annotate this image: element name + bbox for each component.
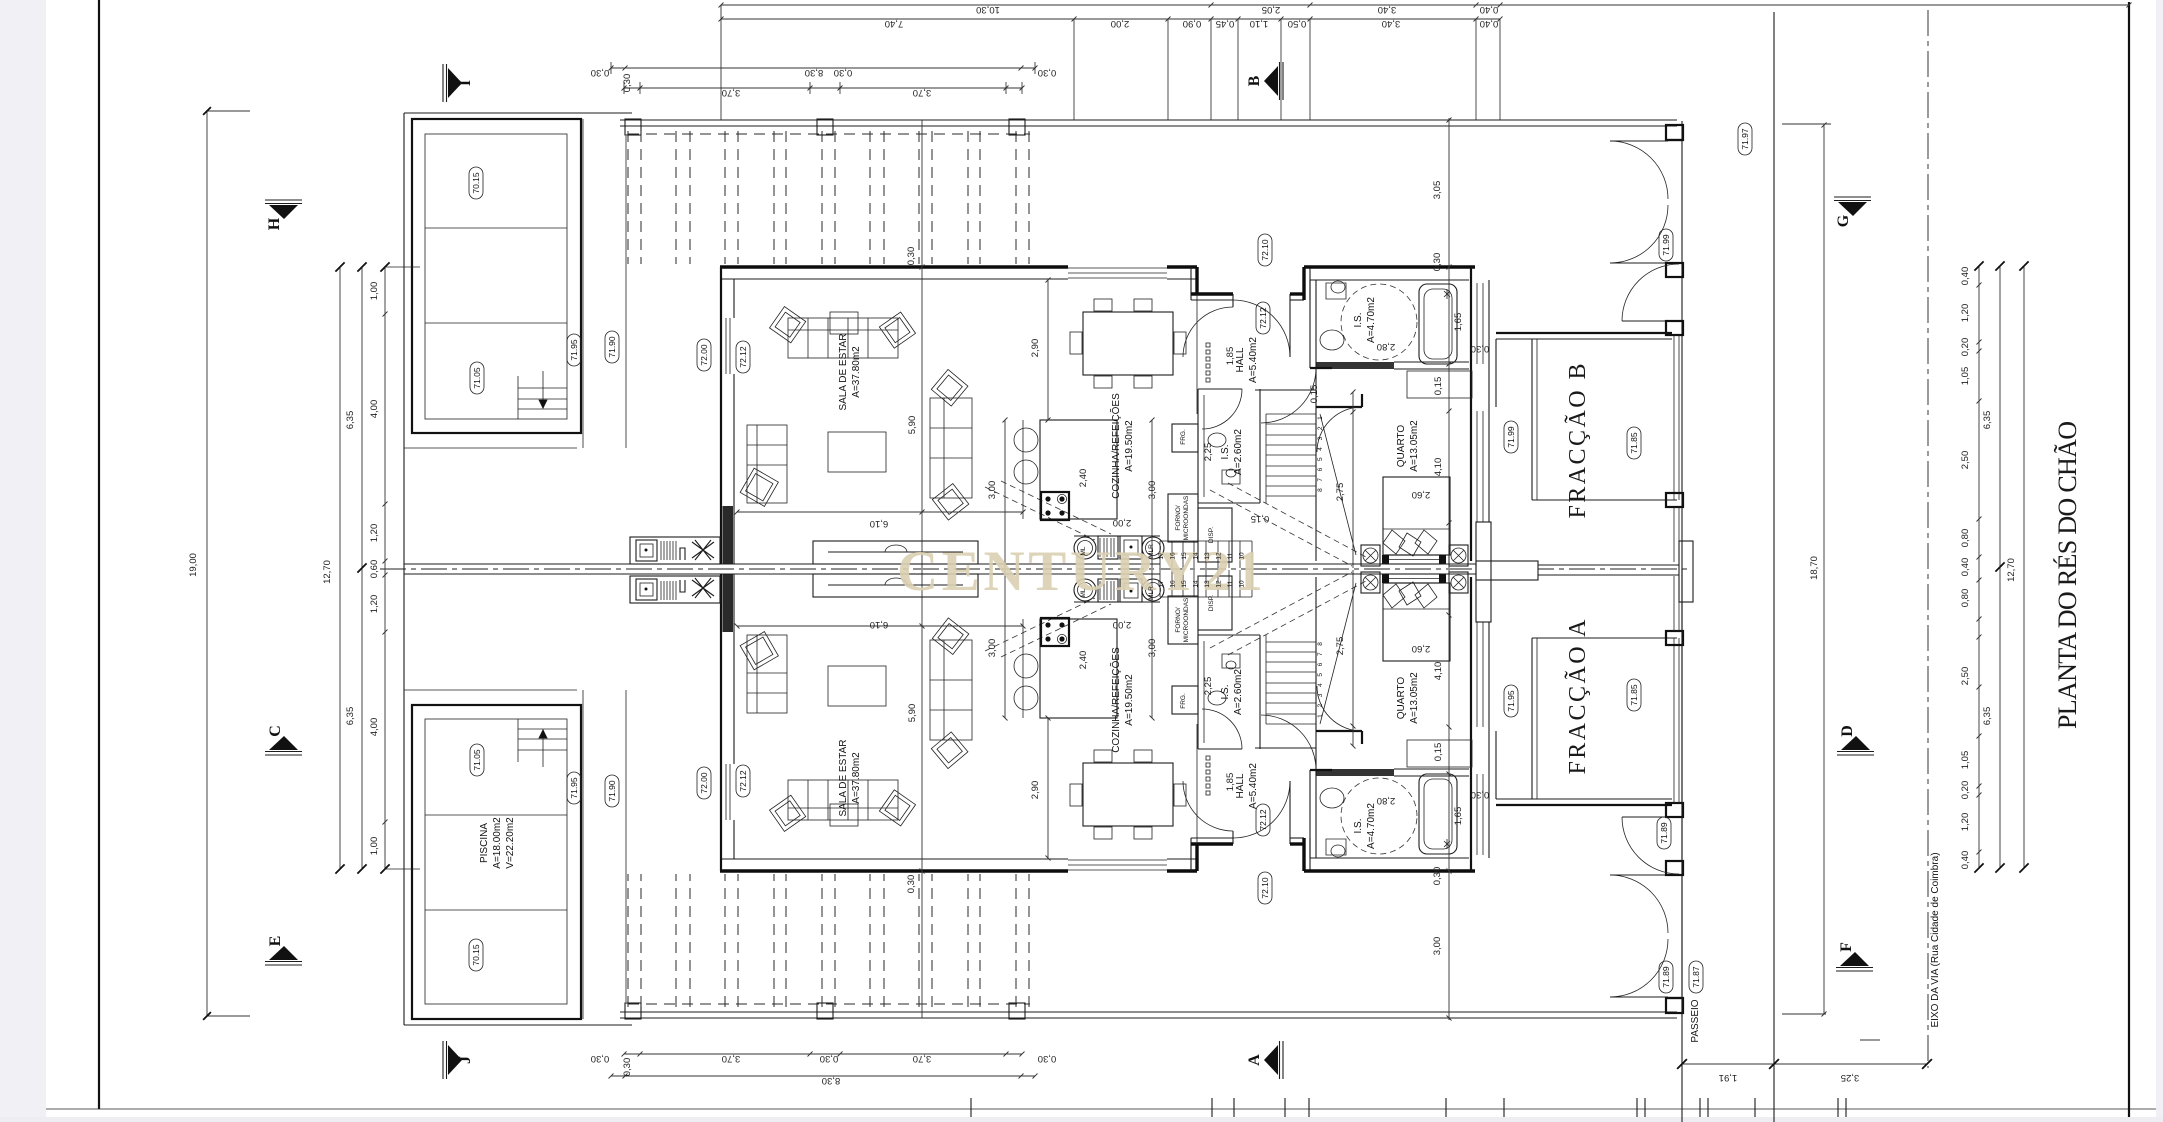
svg-text:0,20: 0,20 [1960, 338, 1971, 357]
dim fine chain left [384, 267, 386, 869]
svg-text:7: 7 [1317, 652, 1324, 656]
svg-text:0,80: 0,80 [1960, 589, 1971, 608]
court slab bottom [1532, 499, 1677, 501]
chair bottom [1134, 376, 1152, 388]
svg-text:3,40: 3,40 [1378, 4, 1397, 15]
gate leaf 3 [1622, 320, 1679, 322]
svg-text:COZINHA/REFEIÇÕES: COZINHA/REFEIÇÕES [1109, 393, 1122, 499]
tick [970, 1098, 972, 1117]
cabinet FRG [1172, 424, 1198, 452]
svg-text:2: 2 [1317, 426, 1324, 430]
svg-text:1,20: 1,20 [1960, 813, 1971, 832]
svg-text:2,00: 2,00 [1113, 619, 1132, 630]
svg-text:71.99: 71.99 [1661, 234, 1671, 256]
svg-text:0,40: 0,40 [1960, 558, 1971, 577]
wall IS2 top [1198, 388, 1242, 390]
svg-text:0,60: 0,60 [369, 560, 380, 579]
wall bath bottom b [1394, 368, 1469, 370]
svg-text:3: 3 [1317, 693, 1324, 697]
wall bath top inner [1310, 279, 1469, 281]
svg-text:0,30: 0,30 [591, 67, 610, 78]
svg-text:6,35: 6,35 [1982, 707, 1993, 726]
svg-text:QUARTO: QUARTO [1396, 425, 1407, 468]
door jamb porch [1232, 294, 1234, 307]
spot elevation 71.89 [1659, 961, 1673, 993]
svg-text:FRG.: FRG. [1180, 693, 1187, 709]
svg-text:3,40: 3,40 [1382, 18, 1401, 29]
dining table [1083, 312, 1173, 375]
tick [1837, 1098, 1839, 1117]
svg-text:FRACÇÃO B: FRACÇÃO B [1565, 364, 1591, 519]
svg-text:12: 12 [1216, 580, 1223, 588]
stair break dash b [1228, 483, 1366, 557]
ext line [1167, 19, 1169, 120]
spot elevation 72.12 [736, 765, 750, 797]
dim line 0,30/5,90 [921, 120, 923, 568]
svg-text:2,50: 2,50 [1960, 451, 1971, 470]
svg-text:3,70: 3,70 [913, 1053, 932, 1064]
wall living left inner a [733, 279, 735, 318]
dim line 2,90 [1047, 280, 1049, 420]
tick [1699, 1098, 1701, 1117]
section marker A [1282, 1041, 1284, 1079]
svg-text:2,80: 2,80 [1377, 341, 1396, 352]
ext line [1309, 19, 1311, 120]
svg-text:72.00: 72.00 [699, 344, 709, 366]
spot elevation 71.90 [605, 775, 619, 807]
svg-text:ML: ML [1080, 546, 1087, 555]
wire property line top [404, 112, 632, 114]
nightstand L [1361, 545, 1380, 566]
svg-text:12,70: 12,70 [322, 560, 333, 584]
svg-text:71.05: 71.05 [472, 749, 482, 771]
niche shelf [1407, 371, 1472, 398]
ext line [1475, 19, 1477, 120]
svg-text:1,65: 1,65 [1453, 313, 1464, 332]
svg-text:J: J [457, 1056, 474, 1064]
court wall top [1496, 332, 1672, 334]
svg-text:2,25: 2,25 [1203, 443, 1214, 462]
spot elevation 71.90 [605, 331, 619, 363]
svg-text:8,30: 8,30 [822, 1075, 841, 1086]
stairs treads [1266, 413, 1316, 415]
tick [1503, 1098, 1505, 1117]
svg-text:A=18.00m2: A=18.00m2 [492, 817, 503, 869]
party fence right b [1538, 574, 1679, 576]
spot elevation 72.12 [1256, 302, 1270, 334]
spot elevation 72.10 [1258, 872, 1272, 904]
svg-text:4: 4 [1317, 683, 1324, 687]
chair top [1134, 299, 1152, 311]
svg-text:DISP.: DISP. [1208, 595, 1215, 611]
column P3 [1009, 119, 1025, 135]
bottom gray margin strip [0, 1117, 2163, 1122]
window kitchen top a [1068, 267, 1167, 269]
svg-text:71.89: 71.89 [1661, 966, 1671, 988]
svg-text:1,20: 1,20 [369, 524, 380, 543]
stairs lower flight treads [1159, 541, 1161, 568]
pool inner edge [425, 134, 567, 419]
spot elevation 72.00 [697, 339, 711, 371]
dim line 19,00 [206, 111, 208, 1016]
svg-text:A=2.60m2: A=2.60m2 [1233, 669, 1244, 715]
svg-text:19,00: 19,00 [188, 553, 199, 577]
svg-text:ML: ML [1080, 588, 1087, 597]
kitchen dash a [985, 487, 1095, 540]
pergola edge dashed [628, 133, 1030, 135]
svg-text:5: 5 [1317, 457, 1324, 461]
section marker H [265, 199, 302, 201]
svg-text:PASSEIO: PASSEIO [1690, 999, 1701, 1042]
wall house right inner [1488, 280, 1490, 561]
svg-text:71.87: 71.87 [1691, 966, 1701, 988]
hall left line [1196, 294, 1198, 414]
svg-text:SALA DE ESTAR: SALA DE ESTAR [838, 739, 849, 816]
svg-text:2,00: 2,00 [1113, 517, 1132, 528]
svg-text:EIXO DA VIA (Rua Cidade de Coi: EIXO DA VIA (Rua Cidade de Coimbra) [1930, 852, 1941, 1027]
svg-text:A=2.60m2: A=2.60m2 [1233, 429, 1244, 475]
tick [1636, 1098, 1638, 1117]
svg-text:MLR: MLR [1148, 544, 1155, 558]
svg-text:I: I [457, 80, 474, 86]
bed linen line [1383, 528, 1450, 530]
toilet IS2 [1222, 469, 1240, 484]
svg-text:1: 1 [1317, 714, 1324, 718]
party fence end post [1679, 541, 1693, 602]
svg-text:12: 12 [1216, 552, 1223, 560]
svg-text:71.85: 71.85 [1629, 684, 1639, 706]
svg-text:5,90: 5,90 [907, 704, 918, 723]
tick [1644, 1098, 1646, 1117]
svg-text:3: 3 [1317, 436, 1324, 440]
wall bath top [1304, 265, 1475, 268]
kitchen dash b [1001, 481, 1111, 534]
bathtub [1419, 284, 1457, 364]
basin IS2 [1208, 433, 1226, 447]
gate leaf 2 [1610, 262, 1668, 264]
dishwasher hatch [1098, 536, 1118, 559]
svg-text:71.85: 71.85 [1629, 432, 1639, 454]
kitchen island [1040, 420, 1117, 519]
toilet IS1 [1326, 281, 1346, 299]
svg-text:16: 16 [1170, 580, 1177, 588]
svg-text:0,30: 0,30 [1471, 789, 1490, 800]
spot elevation 71.85 [1627, 427, 1641, 459]
window bath right a [1476, 283, 1478, 364]
pool lane divider 2 [425, 322, 567, 324]
dim line 6,35 right [1999, 266, 2001, 868]
bbq counter bottom [630, 537, 720, 564]
svg-text:6,35: 6,35 [1982, 411, 1993, 430]
headboard bar [1386, 555, 1441, 564]
dim line 3,05 [1448, 118, 1450, 568]
column P2 [817, 119, 833, 135]
wall IS2 right [1259, 389, 1261, 503]
svg-text:0,90: 0,90 [1183, 18, 1202, 29]
svg-text:PISCINA: PISCINA [479, 823, 490, 863]
svg-text:0,40: 0,40 [1960, 851, 1971, 870]
svg-text:A=37.80m2: A=37.80m2 [851, 346, 862, 398]
dryer MLR [1142, 537, 1164, 559]
svg-text:10: 10 [1239, 580, 1246, 588]
spot elevation 72.00 [697, 767, 711, 799]
ext line [720, 5, 722, 120]
door arc porch entry [1233, 300, 1290, 357]
svg-text:2,75: 2,75 [1335, 637, 1346, 656]
gate post low [1666, 321, 1683, 335]
svg-text:5: 5 [1317, 673, 1324, 677]
svg-text:I.S.: I.S. [1220, 444, 1231, 459]
svg-text:0,30: 0,30 [1471, 343, 1490, 354]
svg-text:4: 4 [1317, 447, 1324, 451]
gate arc 3 [1622, 264, 1679, 321]
section marker F [1836, 970, 1873, 972]
svg-text:4,10: 4,10 [1433, 458, 1444, 477]
svg-text:A=13.05m2: A=13.05m2 [1409, 672, 1420, 724]
spot elevation 71.87 [1689, 961, 1703, 993]
svg-text:8: 8 [1317, 642, 1324, 646]
window bath right b [1482, 283, 1484, 364]
sink unit [1120, 536, 1142, 559]
svg-text:72.10: 72.10 [1260, 239, 1270, 261]
svg-text:2: 2 [1317, 704, 1324, 708]
planter box [813, 574, 978, 597]
wall porch jog inner [1190, 267, 1192, 300]
svg-text:2,25: 2,25 [1203, 677, 1214, 696]
wall jog up to bath [1302, 267, 1305, 300]
sheet border bottom [46, 1108, 2156, 1110]
svg-text:15: 15 [1181, 580, 1188, 588]
tick [1445, 1098, 1447, 1117]
svg-text:70.15: 70.15 [471, 944, 481, 966]
svg-text:4,00: 4,00 [369, 400, 380, 419]
svg-text:3,25: 3,25 [1841, 1072, 1860, 1083]
svg-text:6,10: 6,10 [870, 518, 889, 529]
svg-text:SALA DE ESTAR: SALA DE ESTAR [838, 333, 849, 410]
section marker G [1834, 196, 1871, 198]
tap symbol [1444, 289, 1450, 299]
svg-text:A=19.50m2: A=19.50m2 [1124, 420, 1135, 472]
ext line [1280, 19, 1282, 120]
svg-text:0,15: 0,15 [1251, 513, 1270, 524]
dim line 18,70 [1823, 125, 1825, 1014]
svg-text:1,05: 1,05 [1960, 751, 1971, 770]
svg-text:13: 13 [1204, 580, 1211, 588]
svg-text:2,00: 2,00 [1111, 18, 1130, 29]
cabinet forno-micro [1168, 494, 1198, 542]
svg-text:71.05: 71.05 [472, 367, 482, 389]
svg-text:0,30: 0,30 [906, 875, 917, 894]
tick [1707, 1098, 1709, 1117]
svg-text:2,40: 2,40 [1078, 469, 1089, 488]
svg-text:11: 11 [1227, 580, 1234, 587]
ext line [1073, 19, 1075, 120]
svg-text:71.99: 71.99 [1506, 426, 1516, 448]
svg-text:12,70: 12,70 [2006, 558, 2017, 582]
bath sliding door dark bar [1316, 362, 1394, 369]
svg-text:HALL: HALL [1235, 347, 1246, 372]
wall living top inner [720, 278, 1068, 280]
svg-text:8: 8 [1317, 488, 1324, 492]
pergola dashed joists [627, 131, 629, 264]
svg-text:0,15: 0,15 [1433, 743, 1444, 762]
wall poche lower [723, 506, 734, 564]
svg-text:71.97: 71.97 [1740, 128, 1750, 150]
tick [1233, 1098, 1235, 1117]
gate leaf 1 [1610, 140, 1668, 142]
svg-text:3,00: 3,00 [987, 481, 998, 500]
svg-text:A=4.70m2: A=4.70m2 [1366, 297, 1377, 343]
svg-text:72.12: 72.12 [1258, 809, 1268, 831]
window quarto a [1476, 411, 1478, 523]
svg-text:2,05: 2,05 [1262, 4, 1281, 15]
dim row 8,30 top [611, 67, 1035, 69]
svg-text:COZINHA/REFEIÇÕES: COZINHA/REFEIÇÕES [1109, 647, 1122, 753]
chimney cross [1476, 522, 1491, 622]
svg-text:A=37.80m2: A=37.80m2 [851, 752, 862, 804]
svg-text:I.S.: I.S. [1353, 818, 1364, 833]
svg-text:0,15: 0,15 [1309, 385, 1320, 404]
island left guide [1022, 420, 1024, 519]
svg-text:0,40: 0,40 [1480, 18, 1499, 29]
left gray margin strip [0, 0, 46, 1122]
wall living left outer [720, 267, 722, 564]
chair top [1094, 299, 1112, 311]
svg-text:D: D [1839, 725, 1856, 737]
wire site wall outer [620, 119, 1677, 121]
wall quarto top [1316, 406, 1362, 408]
svg-text:2,60: 2,60 [1412, 489, 1431, 500]
svg-text:4,10: 4,10 [1433, 662, 1444, 681]
dim line 2,75 [1352, 392, 1354, 568]
wire property line left [403, 113, 405, 569]
sofa group upper [788, 318, 898, 358]
svg-text:72.12: 72.12 [738, 770, 748, 792]
dim line 12,70 right [2023, 266, 2025, 868]
gate post court [1666, 493, 1683, 507]
svg-text:10,30: 10,30 [976, 4, 1000, 15]
svg-text:0,30: 0,30 [906, 247, 917, 266]
road axis dash-dot [1927, 10, 1929, 1068]
party wall bottom edge right [1252, 573, 1476, 575]
svg-text:A=13.05m2: A=13.05m2 [1409, 420, 1420, 472]
spot elevation 71.05 [470, 744, 484, 776]
svg-text:B: B [1246, 75, 1263, 86]
svg-text:6,10: 6,10 [870, 619, 889, 630]
svg-text:3,00: 3,00 [987, 639, 998, 658]
svg-text:0,30: 0,30 [622, 74, 633, 93]
wall bath left outer [1309, 280, 1311, 368]
door arc IS2 [1202, 389, 1242, 429]
wall corridor top [1255, 389, 1316, 391]
wall porch face [1191, 292, 1233, 295]
svg-text:FORNO/: FORNO/ [1175, 607, 1182, 632]
stool 1 [1014, 428, 1038, 452]
svg-text:FORNO/: FORNO/ [1175, 505, 1182, 530]
svg-text:A=5.40m2: A=5.40m2 [1248, 337, 1259, 383]
door arc hall-living [1183, 307, 1233, 357]
ext line [1210, 19, 1212, 120]
svg-text:1,91: 1,91 [1719, 1072, 1738, 1083]
svg-text:1,20: 1,20 [1960, 304, 1971, 323]
window kitchen top b [1068, 272, 1167, 274]
svg-text:72.12: 72.12 [738, 346, 748, 368]
tick [1284, 1098, 1286, 1117]
center line dash-dot [380, 568, 1690, 570]
svg-text:I.S.: I.S. [1353, 312, 1364, 327]
svg-text:5,90: 5,90 [907, 416, 918, 435]
svg-text:A=19.50m2: A=19.50m2 [1124, 674, 1135, 726]
turning circle dashed [1341, 284, 1417, 360]
svg-text:1,20: 1,20 [369, 595, 380, 614]
pillow 3 [1415, 530, 1437, 554]
pool stair arrow [539, 371, 547, 408]
svg-text:MICROONDAS: MICROONDAS [1183, 597, 1190, 642]
svg-text:I.S.: I.S. [1220, 684, 1231, 699]
svg-text:2,60: 2,60 [1412, 643, 1431, 654]
svg-text:3,70: 3,70 [722, 87, 741, 98]
svg-text:C: C [267, 725, 284, 737]
planter box [813, 541, 978, 564]
wire street curb [1773, 12, 1775, 1122]
dotted squares hall [1206, 343, 1210, 347]
svg-text:E: E [267, 936, 284, 947]
spot elevation 71.99 [1659, 229, 1673, 261]
svg-text:FRACÇÃO A: FRACÇÃO A [1565, 619, 1591, 775]
section marker J [442, 1041, 444, 1079]
stair rail diagonal [1320, 414, 1356, 555]
svg-text:F: F [1838, 942, 1855, 952]
fence d [1678, 507, 1680, 562]
svg-text:0,30: 0,30 [1432, 253, 1443, 272]
pillow 1 [1383, 530, 1405, 554]
svg-text:A: A [1246, 1054, 1263, 1066]
svg-text:0,50: 0,50 [1288, 18, 1307, 29]
window living left b [729, 318, 731, 374]
party wall top edge right [1252, 563, 1476, 565]
svg-text:17: 17 [1158, 580, 1165, 588]
svg-text:0,30: 0,30 [1432, 867, 1443, 886]
svg-text:71.95: 71.95 [1506, 690, 1516, 712]
pool lane divider 1 [425, 227, 567, 229]
wall top right seg [1167, 265, 1197, 268]
dim stub top [1782, 123, 1831, 125]
court slab left inner [1536, 339, 1538, 500]
dim row 3,70 bottom [624, 1053, 1022, 1055]
svg-text:2,75: 2,75 [1335, 483, 1346, 502]
counter edge [1074, 535, 1160, 537]
tick [1754, 1098, 1756, 1117]
tick [1845, 1098, 1847, 1117]
dim row street [1682, 1063, 1927, 1065]
pillow 2 [1399, 533, 1421, 556]
svg-text:1,65: 1,65 [1453, 807, 1464, 826]
section marker I [442, 64, 444, 102]
dim row 3,70 top [624, 87, 1022, 89]
svg-text:71.90: 71.90 [607, 336, 617, 358]
section marker D [1837, 754, 1874, 756]
ext line [1237, 19, 1239, 120]
stair lower edge [1160, 540, 1252, 542]
svg-text:17: 17 [1158, 552, 1165, 560]
wall porch jog [1195, 267, 1198, 294]
wire street edge [1681, 121, 1683, 569]
svg-text:0,15: 0,15 [1433, 377, 1444, 396]
svg-text:72.12: 72.12 [1258, 307, 1268, 329]
wire deck edge right of pool [582, 119, 584, 448]
svg-text:13: 13 [1204, 552, 1211, 560]
svg-text:0,30: 0,30 [820, 1053, 839, 1064]
